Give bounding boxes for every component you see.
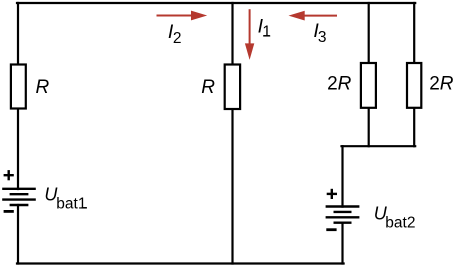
wire right branch2 upper [413,3,415,64]
svg-text:bat1: bat1 [56,196,86,213]
battery U_bat2 label [374,204,416,232]
current arrow I2 label [168,21,182,47]
svg-text:1: 1 [262,24,271,41]
current arrow I3 label [313,20,326,46]
wire battery2 upper [341,146,343,206]
wire right connector [342,145,416,147]
resistor R4, value 2R [407,63,454,108]
svg-text:2: 2 [173,30,182,47]
battery U_bat1 [2,189,36,205]
current arrow I1 [245,9,254,60]
battery U_bat2 plus sign [327,189,337,199]
current arrow I2 [157,11,208,21]
battery U_bat1 minus sign [4,210,14,213]
wire right branch2 lower [413,109,415,147]
battery U_bat2 minus sign [326,228,336,231]
battery U_bat1 label [44,185,87,213]
svg-text:2R: 2R [429,73,454,94]
wire right branch1 lower [368,109,370,147]
svg-text:R: R [36,77,50,98]
svg-text:bat2: bat2 [385,214,415,231]
wire left middle [17,110,19,190]
svg-text:2R: 2R [327,73,352,94]
wire top [17,2,415,4]
wire right branch1 upper [368,3,370,64]
wire bottom [17,262,344,264]
battery U_bat2 [326,207,360,223]
wire middle lower [231,110,233,264]
wire left lower [17,205,19,264]
resistor R3, value 2R [327,63,376,108]
resistor R1 left, value R [11,65,50,109]
current arrow I3 [289,11,338,21]
current arrow I1 label [258,16,271,41]
svg-text:R: R [201,77,215,98]
wire battery2 lower [341,223,343,264]
battery U_bat1 plus sign [4,170,14,180]
svg-text:3: 3 [318,29,327,46]
resistor R2 middle, value R [201,65,240,110]
wire left upper [17,3,19,65]
wire middle upper [231,3,233,65]
